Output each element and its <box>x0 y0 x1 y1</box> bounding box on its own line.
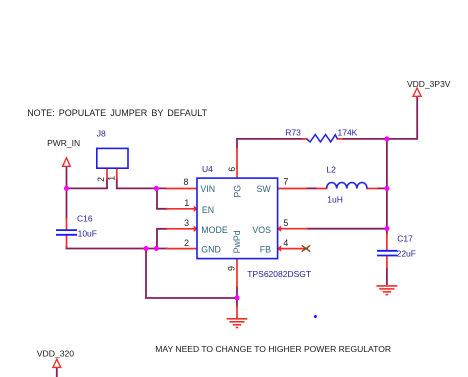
svg-text:C17: C17 <box>397 234 413 244</box>
svg-text:GND: GND <box>201 245 221 255</box>
svg-text:3: 3 <box>184 218 189 228</box>
svg-text:R73: R73 <box>285 128 301 138</box>
svg-text:22uF: 22uF <box>397 249 416 259</box>
svg-text:1: 1 <box>184 198 189 208</box>
svg-text:U4: U4 <box>202 164 213 174</box>
svg-text:FB: FB <box>260 245 271 255</box>
svg-text:2: 2 <box>184 238 189 248</box>
svg-text:MAY NEED TO CHANGE TO HIGHER P: MAY NEED TO CHANGE TO HIGHER POWER REGUL… <box>155 344 391 354</box>
svg-text:PG: PG <box>232 185 242 198</box>
svg-text:174K: 174K <box>338 127 358 137</box>
svg-text:10uF: 10uF <box>78 229 97 239</box>
svg-text:MODE: MODE <box>201 225 228 235</box>
svg-text:NOTE: POPULATE JUMPER BY DEFAU: NOTE: POPULATE JUMPER BY DEFAULT <box>27 108 207 118</box>
svg-text:1: 1 <box>106 176 116 181</box>
svg-text:VIN: VIN <box>200 184 215 194</box>
svg-text:J8: J8 <box>97 129 106 139</box>
svg-text:4: 4 <box>283 238 288 248</box>
svg-text:EN: EN <box>202 205 214 215</box>
svg-text:L2: L2 <box>326 165 336 175</box>
svg-text:7: 7 <box>283 177 288 187</box>
svg-text:9: 9 <box>227 266 237 271</box>
svg-text:PwPd: PwPd <box>232 230 242 253</box>
svg-text:PWR_IN: PWR_IN <box>47 138 80 148</box>
svg-text:VDD_3P3V: VDD_3P3V <box>407 79 451 89</box>
svg-text:5: 5 <box>283 218 288 228</box>
svg-text:VOS: VOS <box>252 225 271 235</box>
svg-text:2: 2 <box>96 177 106 182</box>
svg-text:C16: C16 <box>77 214 93 224</box>
svg-text:1uH: 1uH <box>327 194 343 204</box>
svg-text:VDD_320: VDD_320 <box>37 349 74 359</box>
svg-text:SW: SW <box>257 184 272 194</box>
svg-text:6: 6 <box>227 167 237 172</box>
svg-text:8: 8 <box>184 177 189 187</box>
svg-text:TPS62082DSGT: TPS62082DSGT <box>247 269 311 279</box>
